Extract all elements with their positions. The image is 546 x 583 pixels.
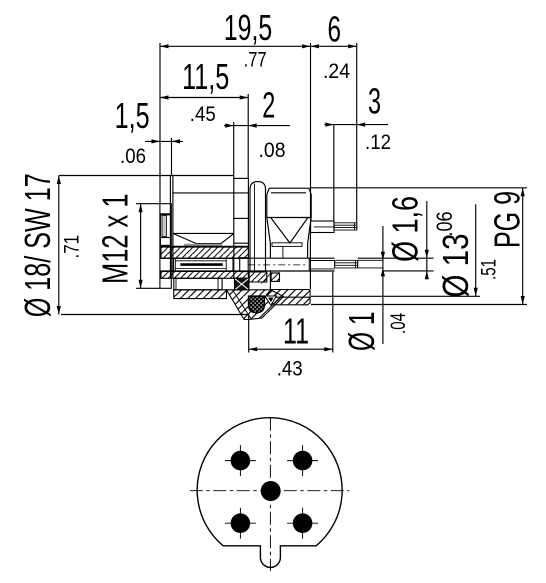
extension line x=356.7 [356, 43, 358, 223]
svg-text:M12 x 1: M12 x 1 [95, 194, 136, 285]
dim D1,6 vertical line [426, 201, 428, 276]
lip thread box [160, 214, 171, 246]
contact pin 2 [293, 451, 313, 471]
middle pin cap1 [354, 260, 356, 268]
contact pin 2 crosshair [287, 460, 318, 462]
D13 extension y=296.3 [311, 295, 480, 297]
svg-text:Ø 18/ SW 17: Ø 18/ SW 17 [17, 173, 58, 317]
svg-text:Ø 1,6: Ø 1,6 [385, 196, 426, 262]
dim 11,5 line [160, 97, 248, 99]
back nut facet line [267, 217, 311, 219]
dim 11 line [249, 348, 333, 350]
11 right extension [332, 272, 334, 353]
svg-text:.77: .77 [244, 49, 267, 72]
D1,6 top extension y=258.2 [358, 257, 434, 259]
middle pin cup [308, 258, 310, 271]
face vertical centerline [269, 418, 271, 571]
svg-text:.12: .12 [365, 131, 391, 154]
svg-text:3: 3 [368, 81, 381, 122]
dim D1 vertical line [382, 226, 384, 344]
small square gasket black [235, 278, 249, 290]
PG9 bottom extension y=304.5 [311, 304, 527, 306]
block mid line [267, 296, 311, 298]
extension line x=160 [159, 43, 161, 204]
M12 top extension [136, 203, 160, 205]
flange right edge [247, 178, 249, 247]
back nut left profile [267, 188, 271, 258]
back nut top inner edge [271, 192, 306, 194]
face view outline circle with notch [197, 418, 342, 568]
lip thread line [160, 214, 171, 216]
svg-text:.45: .45 [190, 103, 216, 126]
extension line y=314.5 bottom [61, 314, 249, 316]
svg-text:1,5: 1,5 [115, 95, 150, 136]
tube vertical d [232, 258, 234, 271]
svg-text:PG 9: PG 9 [487, 191, 528, 248]
flange box inner left [175, 278, 177, 290]
front lip (M12 thread) outline [160, 204, 171, 289]
collar box [240, 258, 249, 272]
dim D13 vertical line [475, 204, 477, 296]
lower flange hatched band [174, 290, 227, 299]
svg-text:Ø 1: Ø 1 [341, 312, 382, 352]
upper pin mid line [314, 226, 334, 228]
svg-text:.04: .04 [387, 313, 410, 334]
svg-text:19,5: 19,5 [224, 7, 272, 48]
D1,6 bottom extension y=270.9 [383, 270, 434, 272]
PG9 top extension y=187.8 [311, 187, 527, 189]
back nut chamfer V [271, 218, 308, 243]
hatch between flange and back nut below axis [249, 272, 267, 282]
svg-text:.06: .06 [432, 212, 457, 237]
11 left extension [248, 314, 250, 353]
middle contact pin thin tip [335, 260, 358, 268]
back nut outer right lower [309, 233, 311, 290]
M12 bottom extension [136, 287, 160, 289]
dim 3 line [325, 124, 389, 126]
contact pin 4 crosshair [287, 522, 318, 524]
dim 19,5 / 6 chain line [160, 45, 357, 47]
upper pin tip cap1 [354, 223, 356, 230]
extension line x=333.8 [333, 125, 335, 221]
middle pin cap2 [357, 260, 359, 268]
extension line x=171.5 [171, 138, 173, 176]
gland V notch white [265, 296, 277, 305]
face horizontal centerline [190, 490, 350, 492]
contact pin 4 [293, 513, 313, 533]
nut inner left vertical [172, 176, 174, 278]
extension + nut top edge y=175.5 [59, 175, 234, 177]
upper pin step [333, 223, 335, 230]
gasket white X [235, 278, 249, 290]
flange box inner right [217, 278, 219, 290]
small gland hatch piece [271, 273, 279, 282]
svg-text:.43: .43 [277, 358, 303, 381]
flange facet line [234, 217, 249, 219]
svg-text:11,5: 11,5 [182, 56, 229, 97]
back bottom hatched block [267, 290, 311, 305]
pin axis dash line [248, 264, 308, 266]
svg-text:6: 6 [328, 9, 342, 50]
dome bump (o-ring seat) [250, 182, 266, 272]
svg-text:.06: .06 [120, 145, 146, 168]
wedge inner diagonal [233, 290, 252, 320]
svg-text:.24: .24 [323, 60, 350, 83]
middle pin step [334, 260, 336, 268]
back nut left lower vertical [269, 271, 271, 290]
nut+flange inner top line [172, 192, 248, 194]
center contact pin 5 [261, 481, 281, 501]
extension line x=248.2 [247, 94, 249, 178]
tube vertical c [225, 258, 227, 271]
back nut inner vertical below washer [282, 246, 284, 258]
thin pin extension lines to D1 dim [358, 259, 383, 261]
flange facet line 2 [234, 242, 249, 244]
upper pin thin striped tip [334, 223, 357, 230]
contact pin 3 [231, 513, 251, 533]
funnel wedge hatched [227, 290, 284, 320]
extension line x=233.7 [233, 122, 235, 176]
dim 2 line [224, 125, 290, 127]
upper solder pin cup [311, 221, 334, 233]
dim PG9 vertical line [522, 188, 524, 305]
insert hatched band upper [161, 247, 248, 258]
lip line 2 [160, 237, 171, 239]
lower mounting flange box [174, 278, 222, 290]
dim line D18/SW17 vertical [58, 176, 60, 315]
back nut top edge [269, 187, 309, 189]
svg-text:.08: .08 [259, 139, 286, 162]
dim M12x1 vertical line [140, 204, 142, 289]
gland V notch inner dark triangle [268, 298, 273, 303]
extension line x=310.5 [310, 43, 312, 221]
dome inner line [254, 184, 256, 273]
contact slot thick line [180, 263, 222, 266]
svg-text:2: 2 [262, 85, 275, 126]
contact pin 1 crosshair [225, 460, 256, 462]
lip thread gray strip [162, 216, 167, 237]
insert hatched band lower [161, 271, 248, 278]
tube vertical b [174, 258, 176, 271]
svg-text:.71: .71 [61, 235, 84, 259]
big o-ring stippled blob [249, 296, 265, 312]
washer at axis [272, 243, 302, 247]
coupling nut outline [169, 176, 171, 279]
upper pin tip cap2 [356, 223, 358, 230]
dim 1,5 line [145, 140, 183, 142]
lip line 3 [160, 244, 171, 246]
svg-text:Ø 13: Ø 13 [435, 234, 476, 298]
svg-text:.51: .51 [478, 259, 501, 280]
nut spring detail [173, 232, 234, 234]
contact pin 3 crosshair [225, 522, 256, 524]
tube vertical a [173, 258, 175, 271]
flange (2mm) column [234, 177, 249, 179]
line y=246.3 under nut and flange [171, 245, 248, 247]
contact tube outline [160, 257, 335, 259]
svg-text:11: 11 [283, 311, 309, 352]
back nut right profile [308, 188, 312, 258]
gland chamfer diagonal [262, 273, 272, 284]
contact inner edges [175, 260, 226, 262]
contact pin 1 [231, 451, 251, 471]
